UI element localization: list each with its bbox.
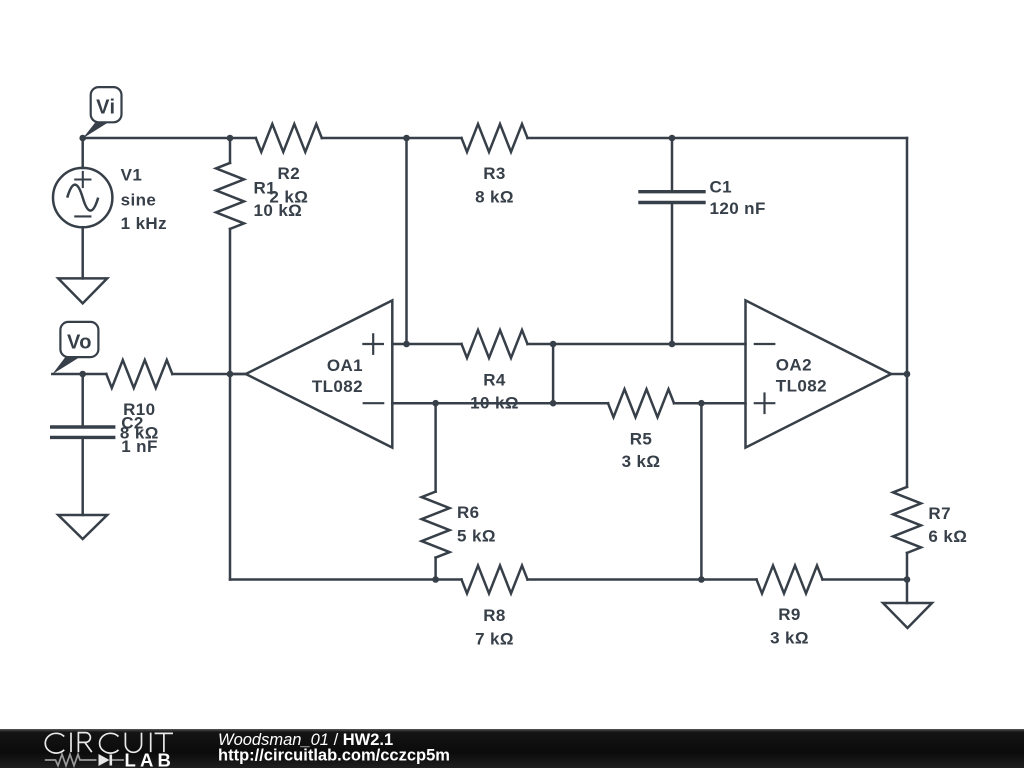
- resistor R6: [434, 403, 437, 491]
- op-amp OA1: [246, 300, 392, 447]
- svg-text:LAB: LAB: [125, 750, 176, 768]
- resistor R3: [462, 124, 528, 152]
- svg-text:TL082: TL082: [776, 377, 827, 396]
- svg-text:3 kΩ: 3 kΩ: [622, 452, 661, 471]
- CircuitLab logo word CIRCUIT (custom thin letterforms): [45, 733, 173, 754]
- resistor R4: [462, 330, 528, 358]
- resistor R10: [52, 373, 106, 376]
- ground G1: [58, 278, 107, 303]
- svg-text:R5: R5: [630, 430, 653, 449]
- logo resistor and diode: [45, 754, 97, 765]
- svg-text:R7: R7: [928, 504, 951, 523]
- svg-text:sine: sine: [121, 191, 157, 210]
- svg-text:10 kΩ: 10 kΩ: [254, 201, 303, 220]
- ground G3: [906, 580, 909, 604]
- wire mid row 2: [392, 402, 608, 405]
- svg-text:1 kHz: 1 kHz: [121, 214, 167, 233]
- svg-text:V1: V1: [121, 166, 143, 185]
- wire v1 vertical: [405, 138, 408, 344]
- svg-text:OA1: OA1: [327, 356, 363, 375]
- svg-text:8 kΩ: 8 kΩ: [475, 188, 514, 207]
- resistor R2: [256, 124, 322, 152]
- voltage source V1: [81, 138, 84, 168]
- wire right rail: [906, 138, 909, 374]
- resistor R1: [229, 138, 232, 163]
- svg-text:OA2: OA2: [776, 355, 812, 374]
- resistor R7: [906, 374, 909, 487]
- resistor R5: [608, 389, 674, 417]
- svg-text:R1: R1: [254, 179, 277, 198]
- svg-text:6 kΩ: 6 kΩ: [928, 527, 967, 546]
- ground G2: [58, 515, 107, 539]
- svg-text:R3: R3: [483, 164, 506, 183]
- op-amp OA2: [746, 300, 892, 447]
- svg-text:7 kΩ: 7 kΩ: [475, 629, 514, 648]
- resistor R8: [462, 566, 528, 594]
- svg-text:R8: R8: [483, 606, 506, 625]
- svg-text:R2: R2: [278, 164, 301, 183]
- svg-text:TL082: TL082: [312, 377, 363, 396]
- svg-text:5 kΩ: 5 kΩ: [457, 527, 496, 546]
- wire mid row 1: [407, 343, 462, 346]
- svg-text:120 nF: 120 nF: [710, 199, 766, 218]
- svg-text:Vi: Vi: [96, 97, 115, 119]
- svg-text:C1: C1: [710, 178, 733, 197]
- svg-text:1 nF: 1 nF: [121, 437, 158, 456]
- capacitor C2: [81, 374, 84, 425]
- op-amp OA2 output pin: [891, 373, 907, 376]
- wire v3 vertical: [700, 403, 703, 579]
- svg-text:3 kΩ: 3 kΩ: [770, 629, 809, 648]
- wire top rail: [83, 137, 256, 140]
- node junctions top: [79, 135, 86, 142]
- svg-text:C2: C2: [121, 414, 144, 433]
- wire v2 vertical: [552, 344, 555, 403]
- resistor R9: [757, 566, 823, 594]
- svg-text:R4: R4: [483, 370, 506, 389]
- svg-text:R9: R9: [778, 605, 801, 624]
- capacitor C1: [671, 138, 674, 190]
- flag Vo: [60, 322, 98, 357]
- svg-text:R6: R6: [457, 503, 480, 522]
- flag Vi: [91, 87, 122, 122]
- svg-text:Vo: Vo: [67, 331, 92, 353]
- wire bottom rail: [230, 578, 462, 581]
- svg-text:http://circuitlab.com/cczcp5m: http://circuitlab.com/cczcp5m: [218, 747, 450, 765]
- node junctions mid/bottom: [79, 371, 86, 378]
- op-amp OA1 pins: [392, 343, 406, 346]
